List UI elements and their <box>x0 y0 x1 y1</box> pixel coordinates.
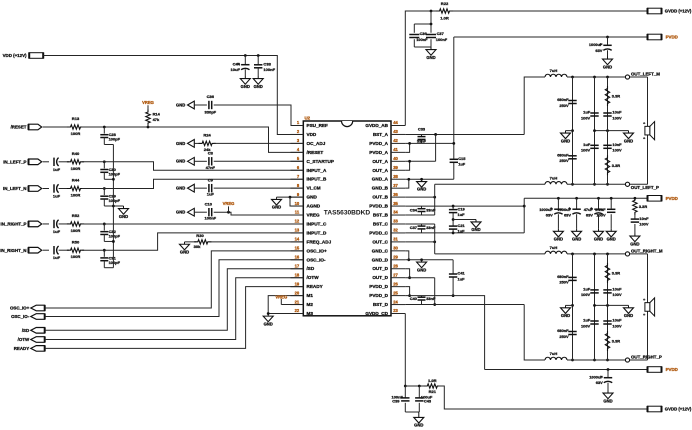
capacitor 10nF 100V lower left <box>603 142 622 153</box>
svg-text:GND: GND <box>471 227 480 232</box>
svg-text:IN_RIGHT_N: IN_RIGHT_N <box>0 248 26 253</box>
IC pin 19 READY <box>291 281 324 289</box>
wire BST_D <box>405 304 524 306</box>
ground 680 mid left <box>561 131 573 144</box>
node 680 col top right <box>571 253 574 256</box>
node snub col bot right <box>606 359 609 362</box>
node PVDD 47uF <box>597 197 600 200</box>
wire C28 to gnd rail <box>104 144 113 146</box>
svg-text:AGND: AGND <box>307 204 321 209</box>
capacitor C9 1uF <box>194 177 214 196</box>
svg-text:27: 27 <box>393 272 398 277</box>
svg-text:1uF: 1uF <box>53 229 61 234</box>
capacitor C37 33nF bootstrap C <box>410 224 436 233</box>
svg-text:1uF: 1uF <box>583 287 591 292</box>
svg-text:1uF: 1uF <box>207 192 215 197</box>
wire GND_D <box>405 259 453 261</box>
svg-text:C38: C38 <box>263 61 271 66</box>
capacitor C8 47nF <box>194 151 215 170</box>
connector IN_LEFT_P <box>3 159 49 165</box>
capacitor C10 100nF <box>194 201 216 220</box>
node VDD-C44 <box>244 54 247 57</box>
svg-text:C36: C36 <box>207 94 215 99</box>
wire speaker col left <box>647 77 649 184</box>
svg-text:44: 44 <box>393 120 398 125</box>
svg-text:OUT_A: OUT_A <box>372 159 388 164</box>
capacitor input 1uF (IN_RIGHT_N) <box>53 246 69 260</box>
svg-text:47uF: 47uF <box>584 207 594 212</box>
ground GND_CD <box>417 260 427 273</box>
node snub mid right <box>606 304 609 307</box>
terminal OUT_RIGHT_P <box>625 354 662 362</box>
svg-text:250V: 250V <box>559 280 569 285</box>
svg-text:13: 13 <box>295 228 300 233</box>
wire BST_C to rail <box>434 224 436 254</box>
node IN_RIGHT_P cap junction <box>103 223 106 226</box>
capacitor 680nF 250V upper left <box>557 97 576 108</box>
wire 680 column right <box>572 254 574 360</box>
ground arrow OC_ADJ <box>176 140 194 148</box>
net label VREG M2 <box>275 294 287 304</box>
svg-text:R50: R50 <box>72 239 80 244</box>
ground below C38 <box>253 76 263 89</box>
svg-text:18: 18 <box>295 272 300 277</box>
ground PVDD 47uF <box>594 229 604 242</box>
svg-text:VDD (+12V): VDD (+12V) <box>3 53 27 58</box>
wire pin9 GND <box>277 196 304 198</box>
terminal OUT_LEFT_M <box>625 71 660 79</box>
IC pin 2 VDD <box>291 129 317 137</box>
svg-text:VREG: VREG <box>223 201 235 206</box>
IC pin 16 OSC_IO- <box>291 254 326 262</box>
svg-text:PSU_REF: PSU_REF <box>307 123 329 128</box>
resistor 3.3R PVDD snub <box>633 198 648 215</box>
svg-text:GND: GND <box>119 214 128 219</box>
svg-text:100pF: 100pF <box>109 137 121 142</box>
wire IN_RIGHT_N to pin13 INPUT_D <box>82 233 303 250</box>
node riser PVDD_A <box>452 142 455 145</box>
svg-text:INPUT_D: INPUT_D <box>307 230 327 235</box>
svg-text:GND: GND <box>307 195 318 200</box>
svg-text:INPUT_B: INPUT_B <box>307 177 327 182</box>
svg-text:100V: 100V <box>612 115 622 120</box>
node PVDD_B col <box>452 205 455 208</box>
capacitor C30 100pF (IN_LEFT_P) <box>100 162 120 180</box>
capacitor 1uF 100V upper right <box>581 287 599 298</box>
svg-text:250V: 250V <box>559 158 569 163</box>
node riser PVDD_D <box>452 294 455 297</box>
IC pin 22 M3 <box>291 308 314 316</box>
svg-text:GVDD_AB: GVDD_AB <box>365 123 388 128</box>
svg-text:26: 26 <box>393 281 398 286</box>
svg-text:100R: 100R <box>71 193 81 198</box>
svg-text:C19: C19 <box>458 206 466 211</box>
IC pin 31 OUT_C <box>372 237 405 245</box>
svg-text:C9: C9 <box>208 177 214 182</box>
svg-text:OUT_C: OUT_C <box>372 239 388 244</box>
connector IN_LEFT_N <box>3 186 49 192</box>
IC pin 9 GND <box>291 192 318 200</box>
svg-text:680nF: 680nF <box>557 328 569 333</box>
svg-text:OC_ADJ: OC_ADJ <box>307 141 326 146</box>
wire snub mid left <box>595 130 629 132</box>
IC pin 29 GND_D <box>372 254 406 262</box>
wire OUT_D to BST_D <box>434 278 436 305</box>
IC pin 44 GVDD_AB <box>365 120 405 128</box>
node PVDD BC mid <box>452 218 455 221</box>
wire OUT_B <box>405 196 434 198</box>
wire C32 to gnd rail <box>104 240 113 242</box>
wire R24 to pin3 OC_ADJ <box>214 142 304 144</box>
IC pin 6 INPUT_A <box>291 165 327 173</box>
svg-text:21: 21 <box>295 299 300 304</box>
wire OUT_D pin28 jog <box>405 269 409 278</box>
svg-text:GVDD_CD: GVDD_CD <box>365 311 388 316</box>
wire rail OUT_LEFT_M <box>567 76 648 78</box>
IC pin 25 PVDD_D <box>369 290 405 298</box>
IC pin 8 VI_CM <box>291 183 321 191</box>
wire C8 to pin5 C_STARTUP <box>214 160 304 162</box>
capacitor PVDD 2.2uF <box>595 198 615 228</box>
svg-text:OSC_IO-: OSC_IO- <box>307 257 326 262</box>
svg-text:BST_D: BST_D <box>373 302 389 307</box>
capacitor C36 330pF <box>194 94 216 115</box>
wire READY <box>45 287 304 349</box>
svg-text:10: 10 <box>295 201 300 206</box>
svg-text:GND: GND <box>554 237 563 242</box>
svg-text:C37: C37 <box>410 225 418 230</box>
svg-text:OUT_B: OUT_B <box>372 195 388 200</box>
svg-text:C44: C44 <box>233 61 241 66</box>
ground PVDD 2.2uF <box>606 229 616 242</box>
resistor R13 100R <box>67 116 84 136</box>
svg-text:C36: C36 <box>420 31 428 36</box>
capacitor input 1uF (IN_LEFT_P) <box>53 158 69 172</box>
svg-text:GND: GND <box>630 241 639 246</box>
IC pin 32 PVDD_C <box>369 228 405 236</box>
svg-text:OUT_LEFT_M: OUT_LEFT_M <box>631 71 660 76</box>
inductor L2 7uH <box>545 175 567 184</box>
capacitor C15 1uF (PVDD_A-GND) <box>450 156 467 167</box>
svg-text:GND: GND <box>176 210 185 215</box>
svg-text:IN_RIGHT_P: IN_RIGHT_P <box>1 222 27 227</box>
svg-text:19: 19 <box>295 281 300 286</box>
wire PVDD mid bus <box>524 197 647 199</box>
node snub col top right <box>606 253 609 256</box>
svg-text:3.3R: 3.3R <box>612 339 620 344</box>
capacitor 1uF 100V upper left <box>581 110 599 121</box>
svg-text:C41: C41 <box>458 271 466 276</box>
ground arrow VREG <box>176 208 194 216</box>
node BST_D vertical <box>433 303 436 306</box>
svg-text:100R: 100R <box>71 254 81 259</box>
svg-text:OSC_IO-: OSC_IO- <box>11 314 30 319</box>
capacitor 680nF 250V upper right <box>557 274 576 285</box>
svg-text:63V: 63V <box>564 213 571 218</box>
capacitor 1uF 100V lower left <box>581 142 599 153</box>
node BST_A vertical <box>434 133 437 136</box>
wire 680 column left <box>572 77 574 184</box>
wire C9 to pin8 VI_CM <box>214 187 304 189</box>
svg-text:OSC_IO+: OSC_IO+ <box>307 248 327 253</box>
ground snub mid right <box>624 305 634 318</box>
svg-text:GND: GND <box>254 84 263 89</box>
svg-text:PVDD_C: PVDD_C <box>369 230 388 235</box>
svg-text:GND: GND <box>176 159 185 164</box>
svg-text:33nF: 33nF <box>426 296 436 301</box>
svg-text:32: 32 <box>393 228 398 233</box>
ground GVDD_CD caps <box>414 412 424 428</box>
svg-text:100V: 100V <box>596 213 606 218</box>
wire C30 to gnd rail <box>104 178 113 180</box>
svg-text:40: 40 <box>393 156 398 161</box>
capacitor C35 100nF <box>409 31 428 42</box>
svg-text:GND: GND <box>180 249 189 254</box>
svg-text:/OTW: /OTW <box>307 275 320 280</box>
inductor L4 7uH <box>545 351 567 360</box>
svg-text:GND: GND <box>414 423 423 428</box>
node OUT_C <box>433 240 436 243</box>
IC pin 1 PSU_REF <box>291 120 329 128</box>
speaker right <box>643 297 655 317</box>
IC pin 35 PVDD_B <box>369 201 405 209</box>
ground GND_A <box>417 179 427 192</box>
svg-text:1uF: 1uF <box>458 162 466 167</box>
resistor R24 24k <box>194 133 215 153</box>
IC pin 13 INPUT_D <box>291 228 327 236</box>
svg-text:16: 16 <box>295 254 300 259</box>
svg-text:C34: C34 <box>410 208 418 213</box>
capacitor C45 100nF <box>426 31 448 42</box>
svg-text:22: 22 <box>295 308 300 313</box>
node PVDD snub <box>634 197 637 200</box>
svg-text:37: 37 <box>393 183 398 188</box>
node pin30 jog <box>407 258 410 261</box>
connector IN_RIGHT_P <box>1 221 49 227</box>
node PVDD_B bus corner <box>523 205 526 208</box>
node 680 col top left <box>571 76 574 79</box>
node pin26 jog <box>408 294 411 297</box>
svg-text:/OTW: /OTW <box>18 337 30 342</box>
svg-text:GVDD (+12V): GVDD (+12V) <box>665 9 692 14</box>
svg-text:GND: GND <box>241 84 250 89</box>
svg-text:100R: 100R <box>71 131 81 136</box>
svg-text:GND: GND <box>561 313 570 318</box>
svg-text:10uF: 10uF <box>231 67 241 72</box>
capacitor input 1uF (IN_RIGHT_P) <box>53 220 69 234</box>
wire OUT_A <box>405 160 435 162</box>
svg-text:GND: GND <box>176 102 185 107</box>
svg-text:INPUT_A: INPUT_A <box>307 168 327 173</box>
node M3 gnd <box>267 312 270 315</box>
svg-text:GND: GND <box>272 205 281 210</box>
wire OUT_B riser <box>434 184 436 215</box>
speaker left <box>643 121 655 141</box>
ground PVDD bulk 1000uF a <box>553 229 563 242</box>
svg-text:VDD: VDD <box>307 132 317 137</box>
svg-text:100V: 100V <box>581 323 591 328</box>
ground arrow PSU_REF <box>176 101 194 109</box>
resistor input 100R (IN_RIGHT_P) <box>67 213 84 233</box>
svg-text:100pF: 100pF <box>109 171 121 176</box>
capacitor 680nF 250V lower left <box>557 153 576 164</box>
svg-text:63V: 63V <box>596 380 603 385</box>
svg-text:GND: GND <box>624 313 633 318</box>
svg-text:100V: 100V <box>581 148 591 153</box>
node VREG tick <box>227 211 230 214</box>
svg-text:100nF: 100nF <box>436 37 448 42</box>
inductor L3 7uH <box>545 245 567 254</box>
svg-text:GND: GND <box>264 321 273 326</box>
svg-text:C8: C8 <box>208 151 214 156</box>
svg-text:1uF: 1uF <box>583 318 591 323</box>
ground below C44 <box>240 76 250 89</box>
svg-text:IN_LEFT_N: IN_LEFT_N <box>3 186 27 191</box>
svg-text:PVDD: PVDD <box>666 196 678 201</box>
svg-text:M3: M3 <box>307 311 314 316</box>
svg-text:33nF: 33nF <box>417 138 427 143</box>
wire PVDD top rail <box>454 36 647 38</box>
svg-text:1.0R: 1.0R <box>428 378 437 383</box>
svg-text:20: 20 <box>295 290 300 295</box>
resistor R21 1.0R <box>424 378 441 394</box>
connector GVDD (+12V) top <box>648 8 692 14</box>
wire PVDD riser D <box>452 260 454 296</box>
svg-text:IN_LEFT_P: IN_LEFT_P <box>3 160 26 165</box>
svg-text:7uH: 7uH <box>550 68 558 73</box>
svg-text:PVDD_D: PVDD_D <box>369 284 388 289</box>
svg-text:30: 30 <box>393 246 398 251</box>
svg-text:39: 39 <box>393 165 398 170</box>
svg-text:680nF: 680nF <box>557 153 569 158</box>
svg-text:100V: 100V <box>612 148 622 153</box>
svg-text:10nF: 10nF <box>612 318 622 323</box>
wire input cap ground rail <box>112 145 114 268</box>
svg-text:BST_A: BST_A <box>373 132 389 137</box>
svg-text:47nF: 47nF <box>206 165 216 170</box>
svg-text:GVDD (+12V): GVDD (+12V) <box>665 407 692 412</box>
connector PVDD bottom <box>648 366 678 372</box>
node gnd_cd arrow <box>420 258 423 261</box>
wire GVDD_CD down <box>404 314 406 386</box>
inductor L1 7uH <box>545 68 567 77</box>
svg-text:680nF: 680nF <box>557 97 569 102</box>
node 1uF mid left <box>593 129 596 132</box>
svg-text:C_STARTUP: C_STARTUP <box>307 159 334 164</box>
node PVDD bulk 1000uF b <box>575 197 578 200</box>
svg-text:47k: 47k <box>153 117 160 122</box>
ground PVDD snub <box>630 234 640 247</box>
wire PVDD_D <box>405 296 484 370</box>
wire IN_LEFT_P to pin6 INPUT_A <box>82 162 303 170</box>
node pin37 jog <box>407 178 410 181</box>
connector IN_RIGHT_N <box>0 247 49 253</box>
node pin41 jog <box>408 142 411 145</box>
wire /OTW <box>45 278 304 340</box>
svg-text:C40: C40 <box>410 296 418 301</box>
capacitor C39 100nF (GVDD_CD) <box>392 386 410 412</box>
capacitor C21 1uF (PVDD_C) <box>449 223 466 234</box>
svg-text:1000uF: 1000uF <box>589 42 603 47</box>
svg-text:GND: GND <box>624 138 633 143</box>
wire snub mid right <box>595 304 629 306</box>
ground arrow VI_CM <box>176 184 194 192</box>
svg-text:100R: 100R <box>71 228 81 233</box>
svg-text:24: 24 <box>393 299 398 304</box>
node rail-rightP <box>112 240 115 243</box>
svg-text:63V: 63V <box>586 213 593 218</box>
connector PVDD top <box>648 34 678 40</box>
svg-text:10nF: 10nF <box>639 216 649 221</box>
node reset pullup <box>147 126 150 129</box>
connector PVDD mid <box>648 195 678 201</box>
svg-text:PVDD_D: PVDD_D <box>369 293 388 298</box>
svg-text:PVDD_A: PVDD_A <box>369 150 388 155</box>
svg-text:10nF: 10nF <box>612 142 622 147</box>
wire 1uF column right <box>594 254 596 360</box>
wire snub column left <box>607 77 609 184</box>
IC pin 42 PVDD_A <box>369 138 405 146</box>
svg-text:PVDD: PVDD <box>666 367 678 372</box>
wire M1-M3 tie <box>268 296 303 314</box>
svg-text:OUT_D: OUT_D <box>372 275 388 280</box>
wire PVDD_C <box>405 232 524 234</box>
terminal OUT_RIGHT_M <box>625 248 663 256</box>
resistor 3.3R upper left <box>605 86 620 106</box>
svg-text:3.3R: 3.3R <box>612 163 620 168</box>
capacitor PVDD bulk 1000uF b <box>557 198 580 228</box>
IC pin 40 OUT_A <box>372 156 405 164</box>
ground PVDD BC caps <box>453 220 481 233</box>
ground PVDD bulk 1000uF b <box>572 229 582 242</box>
svg-text:3.3R: 3.3R <box>612 270 620 275</box>
node reset-C28 <box>103 126 106 129</box>
node 1uF col top left <box>593 76 596 79</box>
wire GND_C pin30 jog <box>405 251 409 260</box>
svg-text:R52: R52 <box>72 213 80 218</box>
svg-text:100V: 100V <box>581 292 591 297</box>
connector VDD (+12V) <box>3 52 44 58</box>
capacitor 1uF 100V lower right <box>581 318 599 329</box>
svg-text:1000uF: 1000uF <box>589 375 603 380</box>
net label VREG pin11 <box>223 201 235 212</box>
IC pin 37 GND_B <box>372 183 406 191</box>
svg-text:C21: C21 <box>458 223 466 228</box>
node 680 col bot left <box>571 183 574 186</box>
resistor R14 47k <box>146 110 161 128</box>
node 1uF col top right <box>593 253 596 256</box>
svg-text:C33: C33 <box>418 127 426 132</box>
connector /RESET <box>11 124 42 130</box>
svg-text:GND_C: GND_C <box>372 248 389 253</box>
IC pin 3 OC_ADJ <box>291 138 326 146</box>
svg-text:R44: R44 <box>72 178 80 183</box>
svg-text:GND_D: GND_D <box>372 257 389 262</box>
capacitor 10nF 100V upper right <box>603 287 622 298</box>
wire R13 to pin4 /RESET <box>82 127 303 152</box>
wire snub column right <box>607 254 609 360</box>
svg-text:100V: 100V <box>612 292 622 297</box>
connector /SD <box>22 327 45 333</box>
node 680 mid right <box>571 304 574 307</box>
node PVDD bulk 1000uF a <box>557 197 560 200</box>
svg-text:100V: 100V <box>612 323 622 328</box>
op-amp U2 TAS5630BDKD IC body <box>303 116 391 316</box>
capacitor C29 100pF (IN_LEFT_N) <box>100 189 120 207</box>
capacitor C31 100pF (IN_RIGHT_N) <box>100 250 120 268</box>
svg-text:R14: R14 <box>153 111 161 116</box>
svg-text:GND: GND <box>426 55 435 60</box>
